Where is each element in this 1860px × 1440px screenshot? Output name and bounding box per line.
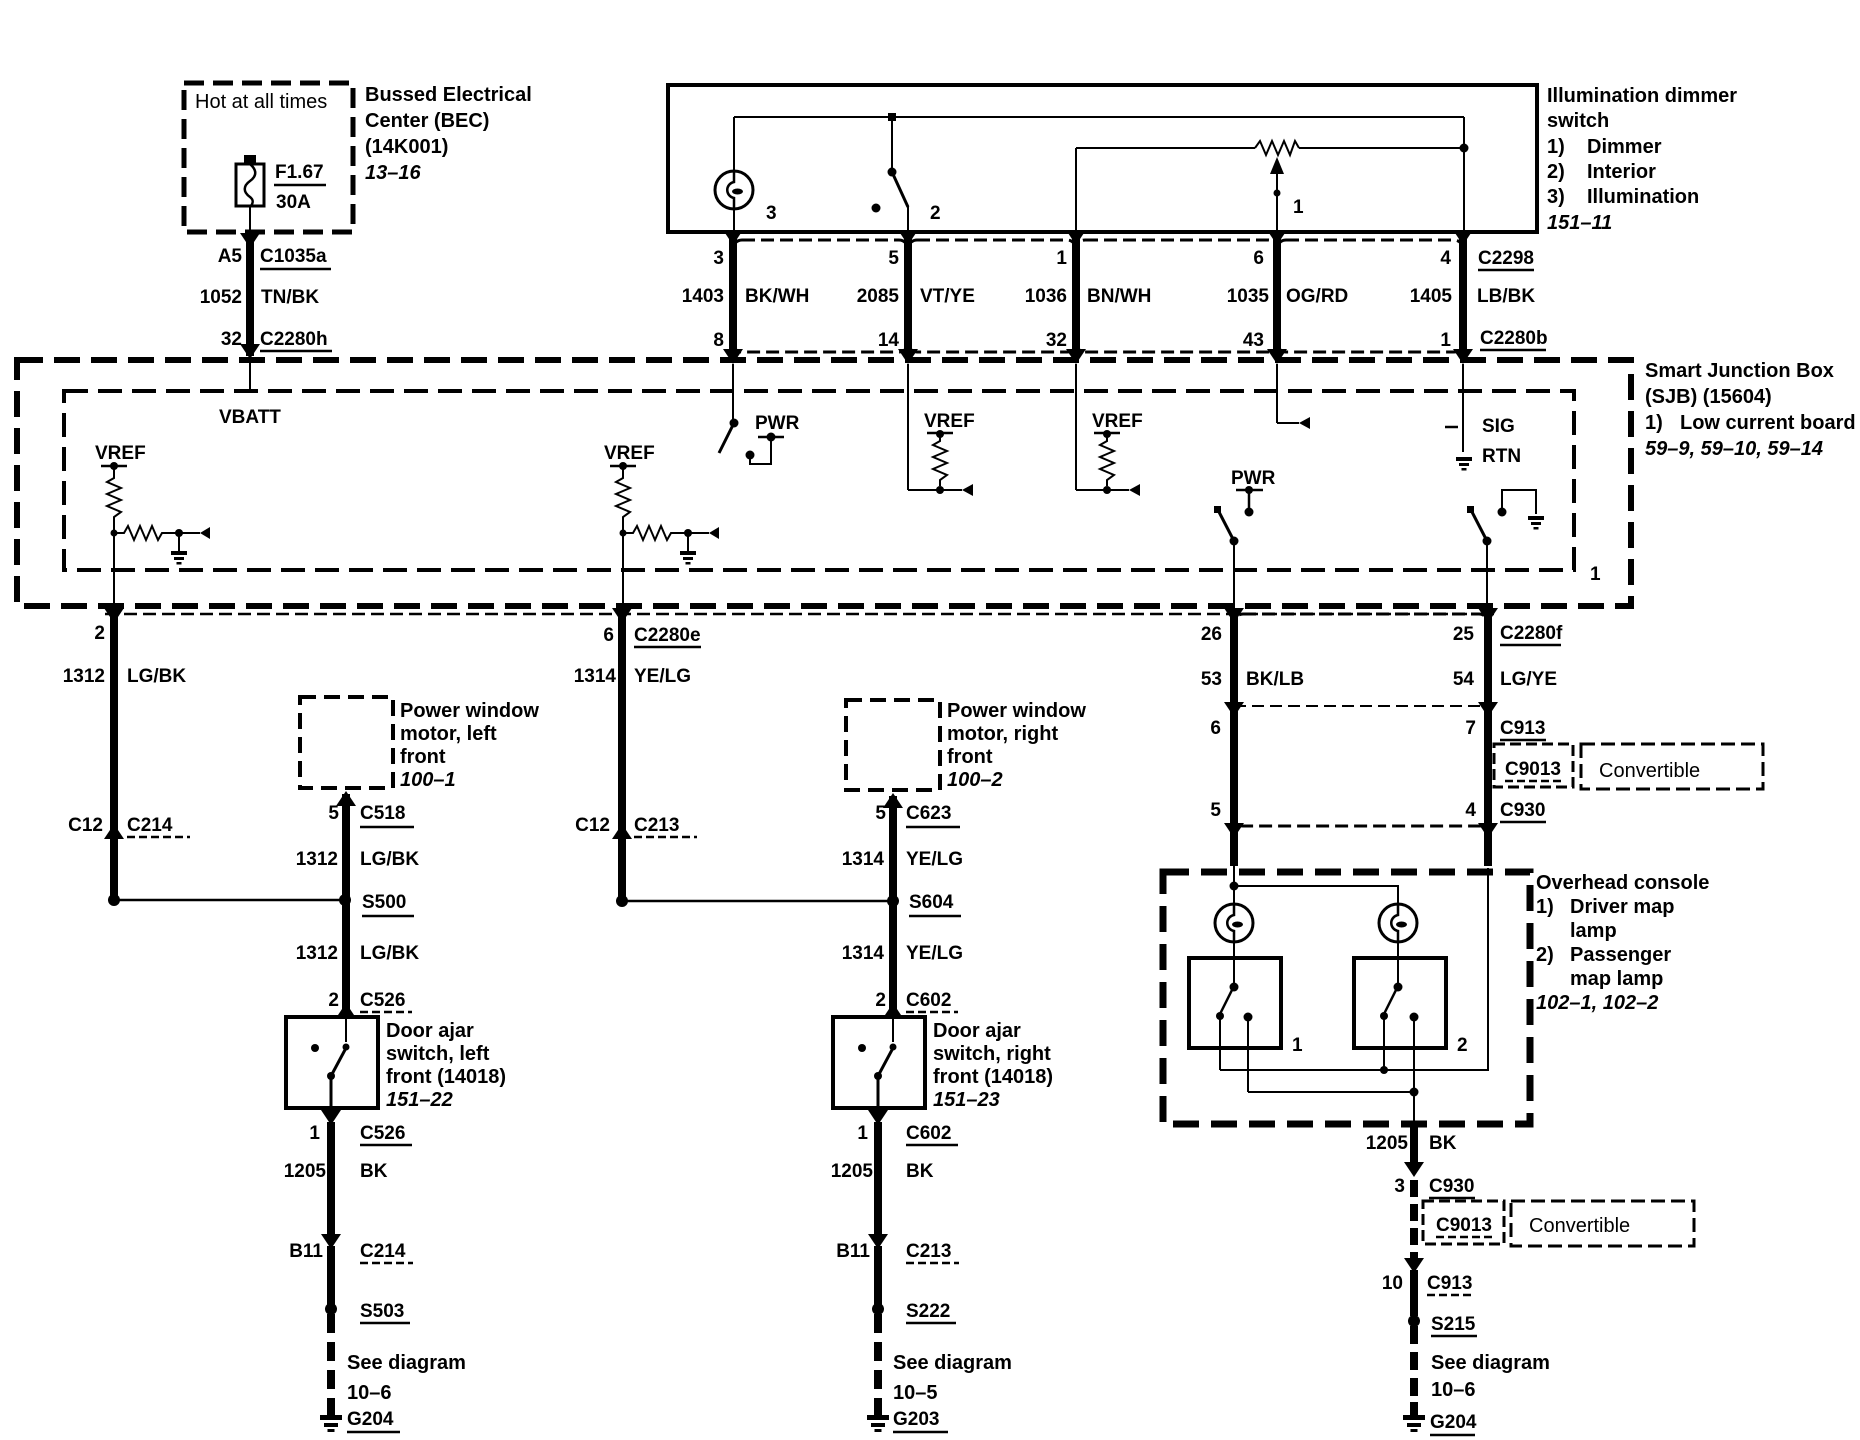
VREF left node bar [101, 465, 127, 468]
wire: feed to passenger lamp [1234, 886, 1398, 905]
map lamp switch 2 box [1354, 958, 1446, 1048]
splice wire to S500 [114, 899, 345, 902]
svg-text:6: 6 [1253, 248, 1264, 269]
switch 2 pivot dot [888, 168, 897, 177]
arrowhead into C930 (down) [1404, 1162, 1424, 1177]
svg-text:2: 2 [328, 990, 339, 1011]
svg-text:Passenger: Passenger [1570, 944, 1671, 966]
map lamp switch hinge dot [1230, 537, 1239, 546]
svg-text:Hot at all times: Hot at all times [195, 91, 327, 113]
svg-text:14: 14 [878, 330, 900, 351]
svg-text:100–2: 100–2 [947, 769, 1003, 791]
svg-text:43: 43 [1243, 330, 1264, 351]
svg-text:1: 1 [1590, 564, 1601, 585]
arrowhead into C913 (down) [1404, 1258, 1424, 1273]
wire 54 LG/YE (thick) [1484, 616, 1492, 866]
arrowhead into SJB (1036) [1066, 349, 1086, 364]
resistor (VREF middle pull-up) [616, 466, 630, 522]
svg-text:C2280e: C2280e [634, 625, 701, 646]
wire into console (driver) [1233, 866, 1235, 904]
svg-text:1314: 1314 [842, 943, 885, 964]
Illumination dimmer switch box [668, 85, 1537, 232]
switch common return wire [1220, 868, 1488, 1070]
switch 2 blade [892, 172, 908, 207]
svg-text:C930: C930 [1500, 800, 1545, 821]
svg-text:See diagram: See diagram [1431, 1352, 1550, 1374]
ground G204 (left) [320, 1402, 342, 1432]
junction dot [1103, 486, 1111, 494]
wire: passenger lamp to switch 2 [1397, 942, 1399, 983]
PWR switch blade (open) [719, 423, 734, 453]
wire to resistor bottom [908, 489, 940, 491]
resistor (VREF3) [933, 434, 947, 486]
svg-text:Bussed Electrical: Bussed Electrical [365, 84, 532, 106]
driver map lamp [1215, 904, 1253, 942]
PWR switch (interior lamp relay) wire from pin 8 [732, 364, 734, 419]
svg-text:3: 3 [713, 248, 724, 269]
wire: pin into switch [345, 1017, 347, 1042]
wire: hinge down to pin 26 [1233, 541, 1235, 612]
wiper junction dot [1274, 190, 1281, 197]
door switch blade [331, 1048, 346, 1076]
wire to ground node [168, 532, 200, 534]
svg-text:(SJB) (15604): (SJB) (15604) [1645, 386, 1772, 408]
arrowhead into SJB (1405) [1453, 349, 1473, 364]
internal bus wire (top horizontal) [734, 116, 1464, 118]
svg-text:2: 2 [1457, 1035, 1468, 1056]
wire through C9013 (interrupted) [1410, 1180, 1418, 1258]
svg-text:30A: 30A [276, 192, 311, 213]
svg-text:13–16: 13–16 [365, 162, 421, 184]
arrowhead into SJB (1035) [1267, 349, 1287, 364]
svg-text:switch: switch [1547, 110, 1609, 132]
Smart Junction Box outer dashed box [17, 360, 1631, 606]
svg-text:Driver map: Driver map [1570, 896, 1675, 918]
svg-text:4: 4 [1440, 248, 1451, 269]
Convertible dashed box (lower) [1511, 1201, 1694, 1246]
svg-text:26: 26 [1201, 624, 1222, 645]
svg-text:C526: C526 [360, 1123, 405, 1144]
map lamp switch blade tip [1214, 506, 1221, 513]
svg-text:S215: S215 [1431, 1314, 1476, 1335]
splice junction dot [616, 895, 628, 907]
svg-text:LG/BK: LG/BK [360, 849, 419, 870]
connector face line C2280e/C2280f (dashed) [105, 613, 1494, 616]
svg-text:B11: B11 [289, 1241, 323, 1262]
wire 53 BK/LB (thick) [1230, 616, 1238, 866]
svg-text:10: 10 [1382, 1273, 1403, 1294]
internal arrow (1035 net) [1299, 417, 1310, 429]
svg-text:1: 1 [1440, 330, 1451, 351]
PWR switch contact dot [746, 451, 755, 460]
switch 2 blade end dot [1380, 1012, 1388, 1020]
ground G203 [867, 1402, 889, 1432]
svg-text:Illumination: Illumination [1587, 186, 1699, 208]
splice S215 [1408, 1315, 1420, 1327]
SIG RTN switch blade tip [1467, 506, 1474, 513]
wire 1314 YE/LG (thick, upper) [618, 616, 626, 901]
svg-text:2085: 2085 [857, 286, 900, 307]
resistor (VREF4) [1100, 434, 1114, 486]
ground bus wire [1248, 1091, 1414, 1093]
svg-text:BK/LB: BK/LB [1246, 669, 1304, 690]
svg-text:S500: S500 [362, 892, 406, 913]
svg-text:5: 5 [328, 803, 339, 824]
wire to resistor bottom [1076, 489, 1107, 491]
VREF3 node dot [936, 430, 944, 438]
wire 1312 LG/BK (motor to door switch) [342, 794, 350, 1017]
lamp (interior lamp) inside dimmer switch [715, 171, 753, 209]
arrowhead into door switch (up) [336, 1003, 356, 1018]
ground G204 (right) [1403, 1402, 1425, 1432]
svg-text:front (14018): front (14018) [933, 1066, 1053, 1088]
svg-text:C623: C623 [906, 803, 951, 824]
svg-text:C602: C602 [906, 990, 951, 1011]
arrowhead pin 6 (C913) [1224, 702, 1244, 717]
connector cell 2 [908, 240, 1076, 352]
svg-text:10–6: 10–6 [347, 1382, 392, 1404]
svg-text:C12: C12 [575, 815, 610, 836]
VREF middle node bar [610, 465, 636, 468]
junction dot [936, 486, 944, 494]
wire: switch 2 contact down [1413, 1017, 1415, 1092]
svg-text:switch, right: switch, right [933, 1043, 1051, 1065]
svg-text:5: 5 [875, 803, 886, 824]
PWR2 supply stem [1248, 490, 1251, 510]
svg-text:1: 1 [857, 1123, 868, 1144]
svg-text:C518: C518 [360, 803, 405, 824]
svg-text:front (14018): front (14018) [386, 1066, 506, 1088]
svg-text:Power window: Power window [947, 700, 1086, 722]
wire to splice S215 [1410, 1270, 1418, 1316]
door switch pivot circle [343, 1044, 350, 1051]
wire 1036 BN/WH (thick) [1072, 233, 1080, 352]
svg-text:G204: G204 [347, 1409, 394, 1430]
svg-text:front: front [947, 746, 993, 768]
svg-text:1205: 1205 [1366, 1133, 1409, 1154]
switch 1 blade end dot [1216, 1012, 1224, 1020]
wire to junction [113, 522, 115, 533]
svg-text:G203: G203 [893, 1409, 939, 1430]
svg-text:B11: B11 [836, 1241, 870, 1262]
junction square at switch feed [888, 113, 896, 121]
svg-text:C913: C913 [1500, 718, 1545, 739]
arrowhead out of door switch (down) [868, 1110, 888, 1125]
svg-text:Low current board: Low current board [1680, 412, 1856, 434]
resistor (middle horizontal) [623, 526, 677, 540]
svg-text:Illumination dimmer: Illumination dimmer [1547, 85, 1737, 107]
arrowhead pin 4 [1453, 230, 1473, 245]
Overhead console dashed box [1163, 872, 1530, 1124]
wire: VREF left down to pin 2 [113, 533, 115, 612]
VREF left node dot [110, 462, 118, 470]
svg-text:switch, left: switch, left [386, 1043, 490, 1065]
svg-text:C930: C930 [1429, 1176, 1474, 1197]
connector face line C913 (dashed) [1234, 705, 1488, 707]
svg-text:Power window: Power window [400, 700, 539, 722]
fuse F1.67 body [236, 164, 264, 206]
svg-text:1312: 1312 [296, 849, 338, 870]
SIG RTN switch hinge dot [1483, 537, 1492, 546]
svg-text:151–11: 151–11 [1547, 212, 1612, 234]
connector C214 arrowhead (up) [104, 824, 124, 839]
svg-text:6: 6 [603, 625, 614, 646]
arrowhead into connector C1035a [240, 233, 260, 248]
junction dot (lamp feed) [1230, 882, 1239, 891]
map lamp switch blade [1218, 510, 1234, 541]
svg-text:VREF: VREF [1092, 411, 1143, 432]
PWR supply dot [767, 433, 776, 442]
svg-text:10–5: 10–5 [893, 1382, 938, 1404]
svg-text:53: 53 [1201, 669, 1222, 690]
svg-text:Door ajar: Door ajar [933, 1020, 1021, 1042]
PWR switch pivot dot [730, 419, 739, 428]
svg-text:1: 1 [1292, 1035, 1303, 1056]
wire to ground [687, 533, 689, 551]
VREF3 node bar [927, 432, 953, 435]
wire 1205 BK (thick, console exit) [1410, 1121, 1418, 1163]
svg-text:C2280b: C2280b [1480, 328, 1548, 349]
svg-text:VREF: VREF [924, 411, 975, 432]
svg-text:YE/LG: YE/LG [634, 666, 691, 687]
switch 2 open contact dot [872, 204, 881, 213]
svg-text:1314: 1314 [842, 849, 885, 870]
wire: pin 1 feed vertical [1075, 148, 1077, 232]
wire: right vertical to pin 4 [1463, 117, 1465, 232]
Bussed Electrical Center (BEC) dashed box [184, 83, 353, 232]
svg-text:OG/RD: OG/RD [1286, 286, 1348, 307]
wire into SJB to VBATT [249, 357, 251, 391]
svg-text:3): 3) [1547, 186, 1565, 208]
wire: fuse to BEC box edge [249, 206, 251, 235]
svg-text:151–22: 151–22 [386, 1089, 453, 1111]
connector C9013 dashed box [1494, 744, 1573, 787]
svg-text:SIG: SIG [1482, 416, 1515, 437]
svg-text:Smart Junction Box: Smart Junction Box [1645, 360, 1834, 382]
svg-text:1036: 1036 [1025, 286, 1067, 307]
wire: switch 1 blade to common [1219, 1016, 1221, 1070]
svg-text:LG/BK: LG/BK [360, 943, 419, 964]
svg-text:C213: C213 [634, 815, 679, 836]
svg-text:C214: C214 [360, 1241, 406, 1262]
Power window motor, right front dashed box [846, 700, 940, 790]
arrowhead pin 2 [104, 608, 124, 623]
svg-text:C214: C214 [127, 815, 173, 836]
switch 1 pivot dot [1230, 983, 1239, 992]
wire to splice S222 [874, 1246, 882, 1305]
svg-text:1: 1 [1056, 248, 1067, 269]
svg-text:G204: G204 [1430, 1412, 1477, 1433]
arrowhead into C214 (down) [321, 1234, 341, 1249]
svg-text:lamp: lamp [1570, 920, 1617, 942]
svg-text:Overhead console: Overhead console [1536, 872, 1709, 894]
svg-text:See diagram: See diagram [347, 1352, 466, 1374]
svg-text:4: 4 [1465, 800, 1476, 821]
wire: blade to pin 5 [907, 206, 909, 232]
svg-text:6: 6 [1210, 718, 1221, 739]
svg-text:F1.67: F1.67 [275, 162, 324, 183]
connector C9013 dashed box (lower) [1423, 1201, 1504, 1244]
svg-text:VBATT: VBATT [219, 407, 281, 428]
wire to ground node [677, 532, 709, 534]
minus tick [1445, 426, 1458, 429]
door switch contact dot [311, 1044, 319, 1052]
PWR2 supply dot [1245, 486, 1253, 494]
svg-text:motor, left: motor, left [400, 723, 497, 745]
arrowhead pin 6 [1267, 230, 1287, 245]
junction dot [111, 530, 118, 537]
arrowhead pin 4 (C930) [1478, 823, 1498, 838]
arrowhead pin 25 [1478, 608, 1498, 623]
VREF4 node dot [1103, 430, 1111, 438]
wiper arrowhead [1270, 157, 1284, 174]
arrowhead out of door switch (down) [321, 1110, 341, 1125]
arrowhead pin 1 [1066, 230, 1086, 245]
svg-text:1): 1) [1645, 412, 1663, 434]
wiper arm wire from pin 6 [1276, 172, 1278, 232]
connector C213 arrowhead (up) [612, 824, 632, 839]
Door ajar switch, left front box [286, 1017, 378, 1108]
wire: lamp bottom to pin 3 [733, 209, 735, 232]
splice junction dot [108, 894, 120, 906]
ground (switch return) [1528, 516, 1544, 530]
svg-text:Convertible: Convertible [1599, 760, 1700, 782]
svg-text:LG/BK: LG/BK [127, 666, 186, 687]
svg-text:BK: BK [1429, 1133, 1457, 1154]
svg-text:1052: 1052 [200, 287, 242, 308]
arrowhead pin 26 [1224, 608, 1244, 623]
internal arrow (left VREF net) [200, 527, 210, 539]
map lamp switch 1 box [1189, 958, 1281, 1048]
arrowhead pin 5 [898, 230, 918, 245]
svg-text:C9013: C9013 [1505, 759, 1561, 780]
internal arrow (VREF3 net) [940, 489, 962, 491]
wire 1405 LB/BK (thick) [1459, 233, 1467, 352]
wire 1035 OG/RD (thick) [1273, 233, 1281, 352]
arrowhead into motor (up) [336, 791, 356, 806]
svg-text:1403: 1403 [682, 286, 724, 307]
Door ajar switch, right front box [833, 1017, 925, 1108]
svg-text:YE/LG: YE/LG [906, 849, 963, 870]
arrowhead into SJB [240, 344, 260, 359]
wire from pin 43 down [1276, 364, 1278, 423]
svg-text:LG/YE: LG/YE [1500, 669, 1557, 690]
svg-text:BN/WH: BN/WH [1087, 286, 1151, 307]
wire 1403 BK/WH (thick) [729, 233, 737, 352]
svg-text:2): 2) [1547, 161, 1565, 183]
svg-text:32: 32 [221, 329, 242, 350]
svg-text:1): 1) [1547, 136, 1565, 158]
switch 1 contact dot [1244, 1013, 1253, 1022]
door switch pivot circle [890, 1044, 897, 1051]
svg-text:VREF: VREF [604, 443, 655, 464]
arrowhead into motor (up) [883, 793, 903, 808]
wire: pin into switch [892, 1017, 894, 1042]
wire: driver lamp to switch 1 [1233, 942, 1235, 983]
door switch blade end dot [327, 1072, 335, 1080]
svg-text:front: front [400, 746, 446, 768]
svg-text:2: 2 [930, 203, 941, 224]
svg-text:BK: BK [906, 1161, 934, 1182]
SIG RTN switch blade [1471, 510, 1487, 541]
ground (VREF left) [171, 551, 187, 565]
svg-text:54: 54 [1453, 669, 1475, 690]
svg-text:LB/BK: LB/BK [1477, 286, 1535, 307]
svg-text:Interior: Interior [1587, 161, 1656, 183]
wire 1312 LG/BK (thick, upper) [110, 616, 118, 900]
svg-text:map lamp: map lamp [1570, 968, 1663, 990]
arrowhead into door switch (up) [883, 1003, 903, 1018]
arrowhead into SJB (2085) [898, 349, 918, 364]
svg-text:10–6: 10–6 [1431, 1379, 1476, 1401]
svg-text:BK: BK [360, 1161, 388, 1182]
svg-text:102–1, 102–2: 102–1, 102–2 [1536, 992, 1658, 1014]
svg-text:motor, right: motor, right [947, 723, 1058, 745]
Convertible dashed box [1581, 744, 1763, 789]
svg-text:1312: 1312 [296, 943, 338, 964]
wire: ground bus to console exit [1413, 1092, 1415, 1121]
svg-text:3: 3 [1394, 1176, 1405, 1197]
SIG RTN switch contact dot [1498, 508, 1507, 517]
splice S604 [887, 895, 899, 907]
wire 1052 TN/BK (thick) [246, 240, 254, 356]
svg-text:Dimmer: Dimmer [1587, 136, 1662, 158]
svg-text:151–23: 151–23 [933, 1089, 1000, 1111]
svg-text:1035: 1035 [1227, 286, 1270, 307]
wire to ground (interrupted) [874, 1314, 882, 1404]
svg-text:7: 7 [1465, 718, 1476, 739]
PWR2 stem end dot [1245, 508, 1254, 517]
wire 1314 YE/LG (motor to door switch) [889, 796, 897, 1017]
svg-text:C2298: C2298 [1478, 248, 1534, 269]
fuse F1.67 element [245, 164, 256, 206]
svg-text:VREF: VREF [95, 443, 146, 464]
wire: junction down to switch pivot [891, 117, 893, 170]
svg-text:C526: C526 [360, 990, 405, 1011]
svg-text:C2280h: C2280h [260, 329, 328, 350]
ground (SIG RTN) [1456, 457, 1472, 471]
SIG RTN wire from pin 1 [1462, 364, 1464, 452]
connector cell 4 [1277, 240, 1463, 352]
wire right to internal arrow [1277, 422, 1299, 424]
switch 2 contact dot [1410, 1013, 1419, 1022]
svg-text:1205: 1205 [284, 1161, 327, 1182]
wire 1205 BK (thick) [327, 1122, 335, 1236]
svg-text:1: 1 [1293, 197, 1304, 218]
arrowhead into SJB (1403) [723, 349, 743, 364]
wire: contact bracket to ground [1502, 490, 1536, 514]
svg-text:C1035a: C1035a [260, 246, 327, 267]
svg-text:RTN: RTN [1482, 446, 1521, 467]
resistor (VREF left pull-up) [107, 466, 121, 522]
svg-text:100–1: 100–1 [400, 769, 456, 791]
dimmer resistor feed wire [1076, 147, 1255, 149]
svg-text:A5: A5 [218, 246, 243, 267]
wire: blade to box bottom [330, 1076, 333, 1108]
svg-text:C213: C213 [906, 1241, 951, 1262]
connector C2298/C2280b cell 1 (dashed) [733, 240, 908, 352]
switch 2 blade [1384, 990, 1396, 1014]
svg-text:C12: C12 [68, 815, 103, 836]
svg-text:1205: 1205 [831, 1161, 874, 1182]
junction dot (switch 2 blade) [1380, 1066, 1388, 1074]
svg-text:C602: C602 [906, 1123, 951, 1144]
svg-text:5: 5 [888, 248, 899, 269]
node dot at right of resistor [1460, 144, 1469, 153]
svg-text:Convertible: Convertible [1529, 1215, 1630, 1237]
splice wire to S604 [622, 900, 893, 903]
svg-text:3: 3 [766, 203, 777, 224]
